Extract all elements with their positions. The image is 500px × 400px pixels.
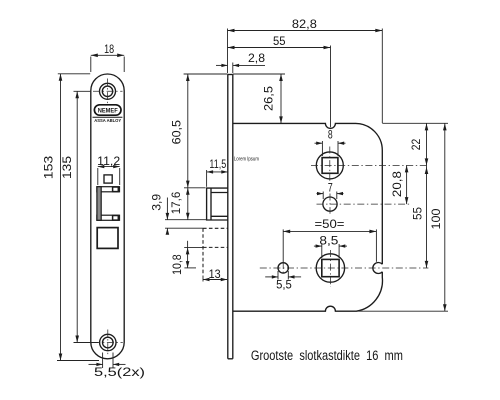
dimension 3,9 [150, 194, 204, 235]
svg-text:5,5: 5,5 [276, 278, 292, 292]
dimension 11,2 [97, 154, 120, 185]
svg-text:11,5: 11,5 [209, 157, 226, 171]
line under logo [93, 116, 123, 118]
svg-text:Grootste slotkastdikte 16 mm: Grootste slotkastdikte 16 mm [251, 348, 403, 364]
dimension 55 top [228, 34, 331, 127]
svg-text:153: 153 [42, 155, 56, 179]
dimension 7 key hole [317, 180, 344, 199]
side view faceplate strip [228, 75, 233, 359]
svg-text:26,5: 26,5 [262, 86, 276, 111]
dimension 17,6 with latch extension lines [169, 188, 207, 220]
dimension 10,8 [170, 241, 203, 275]
svg-text:22: 22 [409, 139, 423, 151]
svg-text:13: 13 [209, 267, 221, 281]
side mounting notch on right edge [373, 263, 382, 274]
top screw hole [93, 79, 123, 105]
key hole circle [317, 194, 412, 214]
latch bolt side view [207, 188, 228, 220]
dimension 22 [409, 123, 428, 165]
svg-text:60,5: 60,5 [170, 120, 184, 145]
svg-text:8,5: 8,5 [319, 233, 339, 247]
deadbolt extended hidden lines [203, 228, 228, 275]
svg-text:7: 7 [328, 180, 333, 194]
dimension 100 [429, 123, 447, 311]
dimension 26,5 [233, 74, 285, 123]
svg-text:55: 55 [273, 34, 286, 48]
latch bolt front view [97, 187, 120, 221]
lower spindle follower [260, 250, 429, 287]
svg-text:Lorem Ipsum: Lorem Ipsum [234, 156, 259, 162]
upper spindle follower [311, 147, 429, 185]
svg-text:18: 18 [104, 42, 114, 56]
faceplate front view outline [91, 74, 124, 359]
case top extension line right [382, 122, 448, 124]
svg-text:2,8: 2,8 [248, 51, 265, 65]
dimension =50= [283, 217, 376, 262]
svg-text:8: 8 [328, 127, 333, 141]
dimension 11,5 [207, 157, 228, 187]
bottom screw hole [93, 330, 123, 356]
lock case outline [233, 123, 383, 311]
small square hole 11,2 [104, 175, 112, 183]
svg-text:3,9: 3,9 [150, 194, 164, 211]
case bottom extension line right [356, 310, 448, 312]
dimension 82,8 [228, 17, 383, 123]
svg-text:100: 100 [429, 208, 443, 229]
dimension 8,5 lower spindle [314, 233, 347, 258]
svg-text:10,8: 10,8 [170, 254, 184, 275]
dimension 5,5(2x) [89, 353, 146, 379]
svg-text:135: 135 [60, 155, 74, 179]
deadbolt square hole front view [97, 228, 118, 249]
svg-text:20,8: 20,8 [390, 171, 404, 197]
dimension 5,5 mounting hole [265, 271, 301, 292]
svg-text:5,5(2x): 5,5(2x) [94, 365, 145, 379]
dimension 55 right [411, 165, 429, 268]
svg-text:ASSA ABLOY: ASSA ABLOY [94, 118, 121, 123]
dimension 2,8 [216, 51, 265, 73]
svg-text:82,8: 82,8 [292, 17, 317, 31]
svg-text:11,2: 11,2 [97, 154, 120, 168]
svg-text:=50=: =50= [315, 217, 345, 231]
dimension 20,8 [390, 165, 408, 204]
dimension 60,5 [170, 74, 228, 188]
NEMEF logo oval [94, 105, 121, 115]
svg-text:55: 55 [411, 207, 425, 220]
dimension 13 [203, 267, 227, 281]
dimension 153 [42, 74, 100, 361]
dimension 135 [60, 91, 99, 342]
5,5 mounting hole [278, 262, 288, 275]
svg-text:NEMEF: NEMEF [98, 108, 118, 115]
dimension 8 upper spindle [315, 127, 346, 156]
dimension 18 [91, 42, 124, 72]
svg-text:17,6: 17,6 [169, 191, 183, 214]
